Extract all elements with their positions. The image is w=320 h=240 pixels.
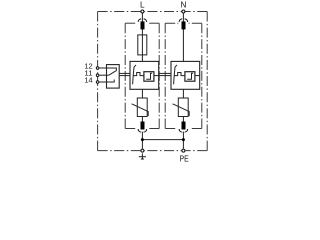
svg-text:14: 14 [84,77,92,84]
module L dashed box [125,23,159,128]
terminal PE [182,149,185,152]
contact 14 line [107,80,115,83]
indicator box N [185,72,195,82]
wire PE bus [142,139,183,141]
disconnector blade N [174,65,177,84]
remote signalling switch box S1 [107,65,120,89]
svg-text:12: 12 [84,63,92,70]
ground symbol [139,153,146,159]
indicator step glyph N [187,73,193,79]
junction dot N/PE bus [182,138,185,141]
module N dashed box [165,23,202,128]
mechanical link module L to module N (double line) [159,73,171,75]
step wire N [175,73,185,76]
wire N branch vertical [182,13,184,148]
disconnector blade L [133,65,136,84]
wire indicator to box edge N [195,75,200,77]
varistor RV1 (L branch) [132,98,149,117]
mechanical link switchbox to module L (double line) [119,73,130,75]
switch lever [109,71,117,76]
terminal 14 [96,81,99,84]
fuse F (backup fuse symbol, L branch) [138,35,147,55]
wires terminals 12/11/14 to switch box [99,68,106,82]
indicator step glyph L [146,73,152,79]
terminal earth [141,149,144,152]
plug-in contact L bottom [138,122,147,133]
plug-in contact N top [179,19,188,30]
SPD module box N (disconnector + indicator) U2 [171,61,200,89]
contact 11 line [107,74,109,76]
plug-in contact L top [138,19,147,30]
junction dot L/PE bus [141,138,144,141]
indicator box L [144,72,154,82]
enclosure boundary (dash-dot outer rectangle) [98,12,208,151]
SPD module box L (disconnector + indicator) U1 [130,61,159,89]
terminal 12 [96,67,99,70]
contact 12 line [107,68,117,71]
plug-in contact N bottom [179,122,188,133]
step wire L [134,73,144,76]
terminal L [141,10,144,13]
terminal 11 [96,74,99,77]
svg-text:PE: PE [180,155,189,164]
svg-text:N: N [180,1,186,10]
svg-text:L: L [140,1,145,10]
varistor RV2 (N branch) [173,98,190,117]
terminal N [182,10,185,13]
wire indicator to box edge L [154,75,159,77]
wire L branch vertical [141,13,143,148]
